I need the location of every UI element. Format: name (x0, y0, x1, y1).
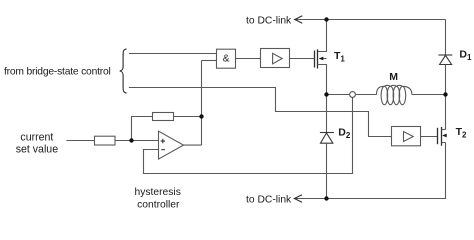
svg-text:D2: D2 (338, 126, 351, 140)
svg-text:M: M (389, 71, 398, 83)
svg-text:D1: D1 (459, 49, 472, 63)
svg-text:controller: controller (137, 200, 180, 211)
svg-text:T2: T2 (456, 126, 467, 140)
svg-text:to DC-link: to DC-link (246, 16, 292, 27)
svg-text:set value: set value (16, 143, 59, 155)
svg-text:to DC-link: to DC-link (246, 195, 292, 206)
svg-text:&: & (223, 54, 230, 65)
svg-text:T1: T1 (334, 50, 345, 64)
svg-text:current: current (20, 131, 53, 143)
svg-text:hysteresis: hysteresis (135, 187, 181, 198)
svg-text:from bridge-state control: from bridge-state control (4, 67, 111, 78)
